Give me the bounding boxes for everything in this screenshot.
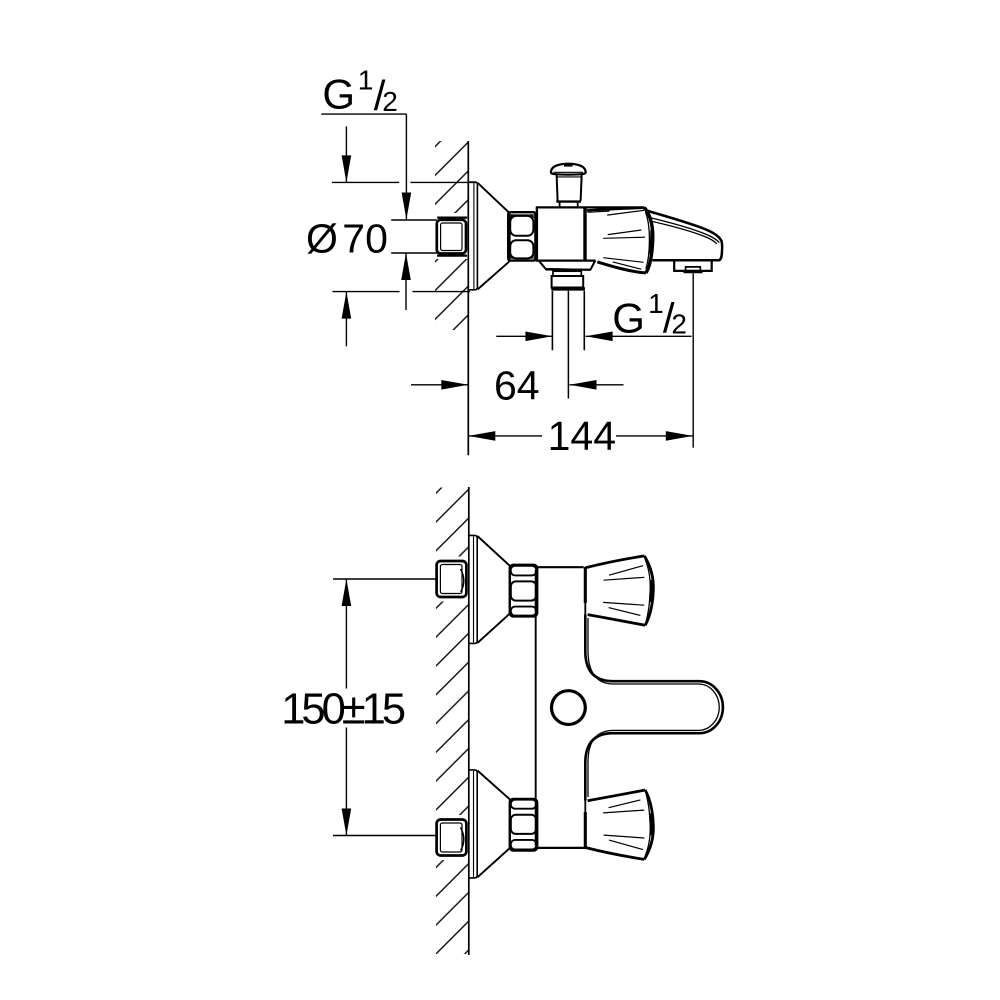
escutcheon flange inner line: [473, 183, 475, 289]
white halo around inlet square: [432, 213, 467, 259]
diverter stem: [560, 203, 578, 207]
dimension G1/2 middle: [496, 335, 552, 337]
top hex nut: [510, 565, 537, 617]
body circle: [552, 691, 586, 725]
top escutcheon cone: [477, 536, 509, 643]
svg-text:70: 70: [342, 215, 388, 261]
dimension 64: [411, 384, 468, 386]
dimension: diameter 70 extension lines: [332, 181, 399, 183]
wall face line: [467, 141, 469, 455]
diverter knob base flange: [556, 200, 581, 202]
hex nut (side view): [508, 212, 535, 260]
body bottom edge: [538, 847, 587, 849]
wall hatching (top view): [435, 141, 468, 330]
label G 1/2 (top): [322, 64, 397, 119]
diverter knob cap: [551, 164, 586, 175]
top handle (plan): [584, 567, 587, 603]
wall face line: [468, 487, 470, 955]
white halo top square: [433, 557, 468, 602]
top inlet square: [437, 561, 467, 597]
svg-text:2: 2: [671, 308, 687, 339]
svg-text:2: 2: [382, 86, 398, 117]
pipe center line: [567, 291, 569, 399]
coupling rings below body: [553, 271, 581, 276]
thick bar below inlet square: [437, 254, 467, 256]
outlet leader / 144 extension: [692, 273, 694, 447]
escutcheon cone: [478, 183, 510, 290]
extension lines inlet square: [391, 219, 437, 221]
svg-text:G: G: [612, 295, 645, 342]
white halo bottom square: [433, 815, 468, 860]
faucet body: [536, 208, 538, 262]
body top edge: [538, 566, 584, 568]
escutcheon flange: [469, 182, 477, 290]
dimension 150 +/- 15: [333, 578, 437, 580]
label G 1/2 (middle): [612, 288, 687, 342]
wall hatching (bottom view): [436, 488, 468, 955]
body left edge: [535, 616, 537, 799]
bottom escutcheon cone: [477, 771, 509, 878]
diverter cap top tick: [564, 164, 573, 166]
bottom hex nut: [510, 799, 537, 851]
svg-text:1: 1: [358, 64, 374, 95]
thick bar above inlet square: [437, 216, 467, 218]
svg-text:Ø: Ø: [306, 215, 338, 261]
svg-text:150±15: 150±15: [281, 686, 405, 734]
spout: [647, 211, 723, 261]
handle (side view): [583, 208, 586, 260]
svg-text:64: 64: [494, 362, 540, 408]
svg-text:1: 1: [648, 288, 664, 319]
bottom handle (plan): [584, 812, 587, 848]
inlet square G1/2 connector: [437, 220, 466, 254]
bottom inlet square: [437, 820, 467, 856]
svg-text:144: 144: [548, 413, 616, 459]
diameter 70 arrows: [345, 126, 347, 182]
diverter knob neck: [557, 175, 582, 201]
dimension 144: [468, 435, 542, 437]
shower pipe: [552, 291, 584, 350]
up arrow below square: [405, 254, 407, 310]
spout outlet: [674, 261, 712, 271]
spout arm (plan view, U shape): [585, 615, 723, 801]
bottom escutcheon flange: [469, 770, 477, 878]
top escutcheon flange: [469, 535, 477, 643]
dimension: G1/2 top leader: [321, 113, 406, 115]
svg-text:G: G: [322, 70, 355, 117]
body bottom skirt: [539, 260, 596, 270]
